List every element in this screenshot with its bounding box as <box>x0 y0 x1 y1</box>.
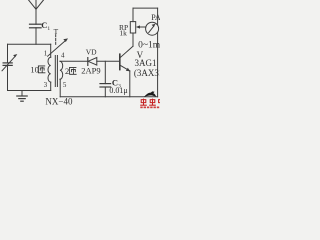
label RP 1k <box>119 23 128 38</box>
svg-text:1: 1 <box>44 50 48 58</box>
logo red characters <box>140 99 162 106</box>
wire pot to top rail <box>132 8 134 22</box>
antenna <box>29 0 44 24</box>
transformer secondary winding <box>60 61 63 79</box>
svg-text:(3AX31): (3AX31) <box>134 68 160 78</box>
logo small red text <box>140 107 159 109</box>
pot wiper arrow <box>136 25 146 28</box>
wire left drop <box>7 44 9 63</box>
svg-text:VD: VD <box>86 48 97 57</box>
ground <box>17 91 27 102</box>
transformer core <box>55 56 57 87</box>
meter PA <box>146 22 159 35</box>
svg-text:2AP9: 2AP9 <box>81 66 100 76</box>
wire bottom-left rail <box>8 90 51 92</box>
svg-text:5: 5 <box>63 81 67 89</box>
capacitor C3 <box>100 61 111 97</box>
transistor emitter <box>120 65 130 97</box>
wire top rail <box>8 43 51 45</box>
capacitor C1 <box>30 24 42 44</box>
svg-text:2: 2 <box>65 66 69 76</box>
svg-text:NX−40: NX−40 <box>45 96 73 106</box>
transformer pin5 wire <box>59 79 61 97</box>
transistor V base bar <box>119 54 121 69</box>
svg-text:10: 10 <box>30 65 39 75</box>
svg-text:0.01μ: 0.01μ <box>109 86 127 95</box>
wire right rail <box>157 8 159 97</box>
label 10匝 <box>30 65 45 75</box>
label C3 <box>112 77 121 89</box>
label 2匝 <box>65 66 77 76</box>
variable capacitor <box>2 54 17 91</box>
svg-text:T: T <box>54 27 59 36</box>
T adjust arrow <box>48 35 68 57</box>
svg-text:0~1mA: 0~1mA <box>138 40 160 50</box>
wire top right rail <box>133 7 158 9</box>
label C1 <box>41 20 50 32</box>
diode VD 2AP9 <box>88 58 97 66</box>
svg-text:3AG1: 3AG1 <box>135 58 157 68</box>
svg-text:PA: PA <box>151 13 160 22</box>
transistor collector <box>120 33 133 58</box>
wire diode to base <box>97 60 120 62</box>
wire bottom rail <box>60 96 157 98</box>
svg-text:4: 4 <box>61 51 65 59</box>
svg-text:1: 1 <box>47 26 50 32</box>
svg-text:1k: 1k <box>119 29 127 38</box>
logo bird <box>144 91 156 97</box>
potentiometer RP body <box>130 22 135 33</box>
svg-text:3: 3 <box>44 81 48 89</box>
transformer T primary winding pin1 wire <box>50 44 52 57</box>
transformer pin3 wire <box>50 82 52 90</box>
transformer T primary winding <box>48 57 51 82</box>
wire secondary to diode <box>60 60 88 62</box>
